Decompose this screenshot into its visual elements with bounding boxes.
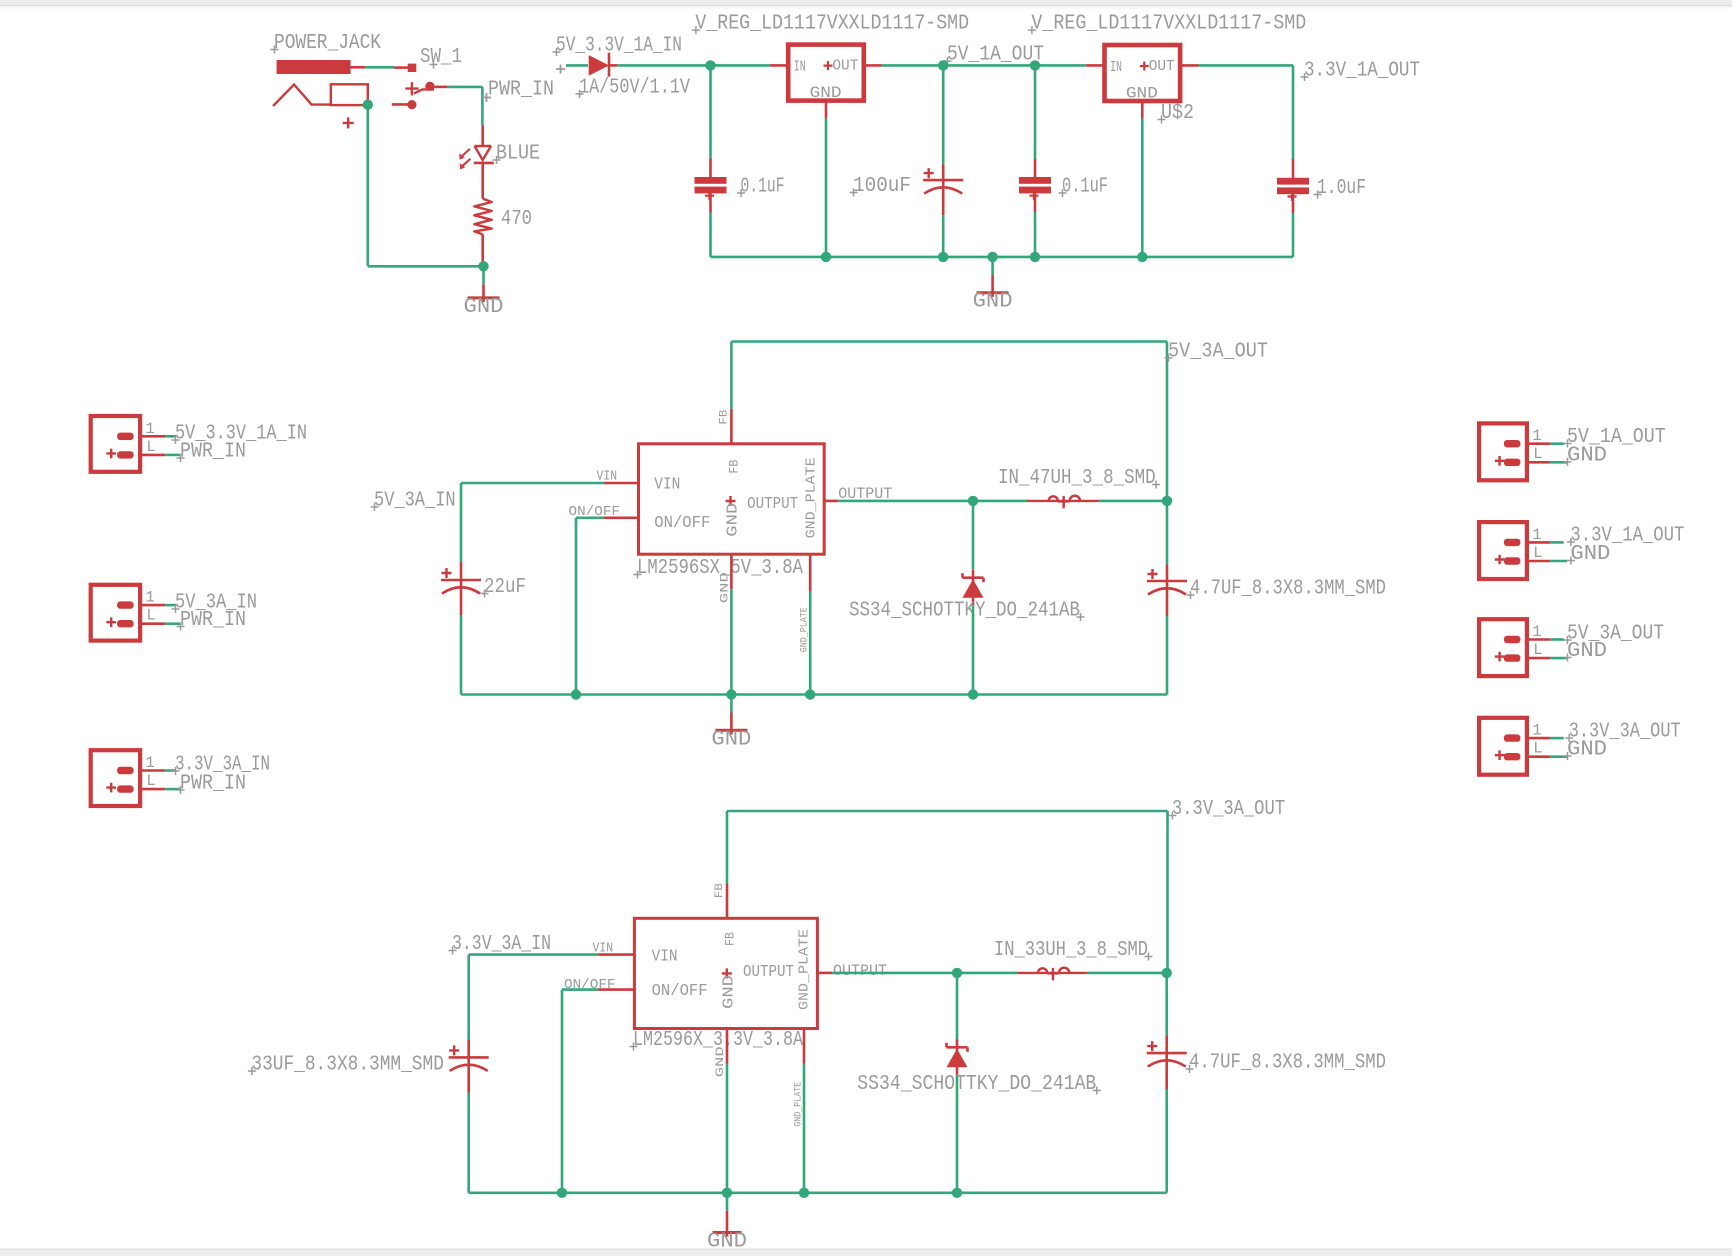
svg-text:4.7UF_8.3X8.3MM_SMD: 4.7UF_8.3X8.3MM_SMD <box>1190 578 1386 601</box>
svg-text:L: L <box>146 772 155 790</box>
svg-text:1: 1 <box>1532 526 1541 544</box>
svg-text:VIN: VIN <box>652 948 678 967</box>
svg-text:L: L <box>146 438 155 456</box>
svg-text:FB: FB <box>714 883 726 898</box>
svg-text:V_REG_LD1117VXXLD1117-SMD: V_REG_LD1117VXXLD1117-SMD <box>1031 13 1306 36</box>
svg-text:3.3V_3A_IN: 3.3V_3A_IN <box>452 933 551 956</box>
svg-text:1: 1 <box>145 754 154 772</box>
svg-text:5V_3A_IN: 5V_3A_IN <box>374 490 456 513</box>
svg-text:GND_PLATE: GND_PLATE <box>800 607 811 652</box>
svg-text:SS34_SCHOTTKY_DO_241AB: SS34_SCHOTTKY_DO_241AB <box>857 1073 1096 1096</box>
svg-text:ON/OFF: ON/OFF <box>652 982 708 1001</box>
svg-text:PWR_IN: PWR_IN <box>180 441 246 464</box>
svg-text:100uF: 100uF <box>853 175 911 198</box>
svg-text:PWR_IN: PWR_IN <box>488 79 554 102</box>
svg-text:OUTPUT: OUTPUT <box>743 963 794 982</box>
svg-text:GND: GND <box>721 975 738 1009</box>
svg-text:1: 1 <box>1532 427 1541 445</box>
svg-text:L: L <box>1533 740 1542 758</box>
svg-text:1: 1 <box>1532 722 1541 740</box>
svg-text:SW_1: SW_1 <box>420 46 462 69</box>
svg-text:L: L <box>1533 445 1542 463</box>
svg-text:GND: GND <box>464 296 504 319</box>
svg-text:FB: FB <box>719 409 731 424</box>
svg-text:L: L <box>1533 544 1542 562</box>
svg-text:3.3V_1A_OUT: 3.3V_1A_OUT <box>1304 60 1420 83</box>
svg-text:IN_33UH_3_8_SMD: IN_33UH_3_8_SMD <box>994 939 1148 962</box>
svg-text:4.7UF_8.3X8.3MM_SMD: 4.7UF_8.3X8.3MM_SMD <box>1189 1052 1386 1075</box>
svg-text:1: 1 <box>145 420 154 438</box>
svg-text:0.1uF: 0.1uF <box>741 176 785 199</box>
svg-text:LM2596X_3.3V_3.8A: LM2596X_3.3V_3.8A <box>633 1029 803 1052</box>
svg-text:GND: GND <box>1126 84 1158 102</box>
svg-text:OUTPUT: OUTPUT <box>833 962 887 980</box>
svg-text:5V_3A_OUT: 5V_3A_OUT <box>1168 341 1268 364</box>
svg-text:VIN: VIN <box>654 476 680 495</box>
svg-text:POWER_JACK: POWER_JACK <box>274 32 381 55</box>
svg-text:GND: GND <box>1570 543 1610 566</box>
svg-text:1A/50V/1.1V: 1A/50V/1.1V <box>579 77 690 100</box>
svg-text:FB: FB <box>723 932 738 946</box>
svg-text:LM2596SX_5V_3.8A: LM2596SX_5V_3.8A <box>637 557 803 580</box>
svg-text:PWR_IN: PWR_IN <box>180 773 246 796</box>
svg-text:1: 1 <box>145 589 154 607</box>
svg-text:IN: IN <box>794 60 806 76</box>
svg-text:470: 470 <box>501 208 532 231</box>
svg-text:FB: FB <box>727 459 742 473</box>
svg-text:L: L <box>146 607 155 625</box>
svg-text:GND: GND <box>810 84 842 102</box>
svg-text:GND: GND <box>725 503 742 537</box>
svg-text:GND_PLATE: GND_PLATE <box>804 457 820 538</box>
svg-text:PWR_IN: PWR_IN <box>180 609 246 632</box>
svg-text:1: 1 <box>1532 623 1541 641</box>
svg-text:GND: GND <box>1567 444 1607 467</box>
svg-text:OUTPUT: OUTPUT <box>747 495 798 514</box>
svg-text:V_REG_LD1117VXXLD1117-SMD: V_REG_LD1117VXXLD1117-SMD <box>695 13 969 36</box>
svg-text:22uF: 22uF <box>484 576 526 599</box>
svg-text:U$2: U$2 <box>1161 102 1194 125</box>
svg-text:GND: GND <box>1567 739 1607 762</box>
svg-text:OUT: OUT <box>1149 59 1175 75</box>
svg-text:IN: IN <box>1110 60 1122 76</box>
svg-text:33UF_8.3X8.3MM_SMD: 33UF_8.3X8.3MM_SMD <box>251 1054 444 1077</box>
svg-text:IN_47UH_3_8_SMD: IN_47UH_3_8_SMD <box>998 467 1156 490</box>
svg-text:BLUE: BLUE <box>496 143 540 166</box>
svg-text:L: L <box>1533 641 1542 659</box>
svg-text:GND: GND <box>707 1231 747 1254</box>
svg-text:GND: GND <box>973 291 1013 314</box>
svg-text:SS34_SCHOTTKY_DO_241AB: SS34_SCHOTTKY_DO_241AB <box>849 600 1080 623</box>
svg-text:GND_PLATE: GND_PLATE <box>797 929 813 1010</box>
svg-text:5V_1A_OUT: 5V_1A_OUT <box>947 44 1044 67</box>
svg-text:3.3V_3A_OUT: 3.3V_3A_OUT <box>1172 798 1285 821</box>
svg-text:1.0uF: 1.0uF <box>1317 177 1366 200</box>
svg-text:OUT: OUT <box>832 59 858 75</box>
svg-text:GND: GND <box>711 728 751 751</box>
svg-text:0.1uF: 0.1uF <box>1062 176 1108 199</box>
svg-text:5V_3.3V_1A_IN: 5V_3.3V_1A_IN <box>556 35 682 58</box>
svg-text:ON/OFF: ON/OFF <box>654 514 710 533</box>
svg-text:GND: GND <box>1567 640 1607 663</box>
